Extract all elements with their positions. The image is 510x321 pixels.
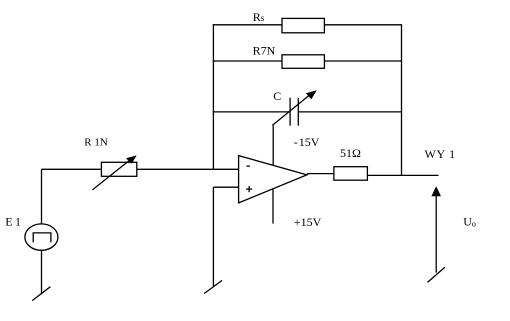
op-amp non-inverting input pin label + (246, 188, 252, 190)
ground (E1) (32, 287, 50, 301)
wire: R7N branch right segment (324, 60, 402, 62)
wire: R7N branch left segment (213, 60, 282, 62)
wire: C branch left segment (213, 111, 290, 113)
svg-text:51Ω: 51Ω (340, 146, 361, 160)
wire: Rs branch right segment (324, 24, 402, 26)
resistor R1N variable arrow (92, 160, 130, 190)
resistor Rs (282, 18, 324, 32)
Uo measurement arrow (435, 192, 437, 273)
wire: positive supply line from op-amp (272, 189, 274, 224)
svg-text:E 1: E 1 (5, 214, 21, 228)
wire: negative supply line to op-amp (272, 125, 274, 165)
wire: Rs branch left segment (213, 24, 282, 26)
op-amp inverting input pin label - (246, 165, 250, 167)
wire: source E1 top lead (41, 169, 43, 224)
resistor 51 ohm (334, 167, 368, 181)
wire: right feedback rail (401, 25, 403, 176)
resistor R7N (282, 55, 324, 69)
wire: ground line from non-inverting input (212, 187, 214, 287)
wire: C branch right segment (298, 111, 402, 113)
svg-text:C: C (273, 89, 281, 103)
svg-text:R 1N: R 1N (84, 137, 108, 149)
svg-text:Rs: Rs (253, 10, 265, 24)
svg-text:+15V: +15V (294, 215, 322, 229)
ground (non-inverting input) (204, 280, 222, 293)
wire: E1 to R1N segment (42, 168, 101, 170)
svg-text:WY 1: WY 1 (425, 147, 456, 161)
wire: output node WY 1 segment (367, 174, 438, 176)
svg-text:R7N: R7N (253, 44, 276, 58)
svg-text:Uo: Uo (463, 215, 476, 229)
wire: left feedback rail (212, 24, 214, 169)
wire: inverting input (node between R1N, rail and op-amp) (137, 168, 239, 170)
wire: non-inverting input to ground rail (213, 186, 238, 188)
op-amp U1 (239, 156, 307, 203)
wire: source E1 bottom lead (41, 250, 43, 294)
source E1 (pulse generator) (25, 224, 58, 250)
svg-text:- 15V: - 15V (294, 135, 320, 149)
wire: op-amp output to 51 ohm resistor (307, 173, 334, 175)
capacitor C variable arrow (272, 94, 310, 125)
ground (Uo reference) (428, 267, 446, 282)
source E1 pulse waveform symbol (33, 233, 51, 243)
resistor R1N (variable) (101, 162, 136, 176)
capacitor C plates (289, 98, 291, 126)
